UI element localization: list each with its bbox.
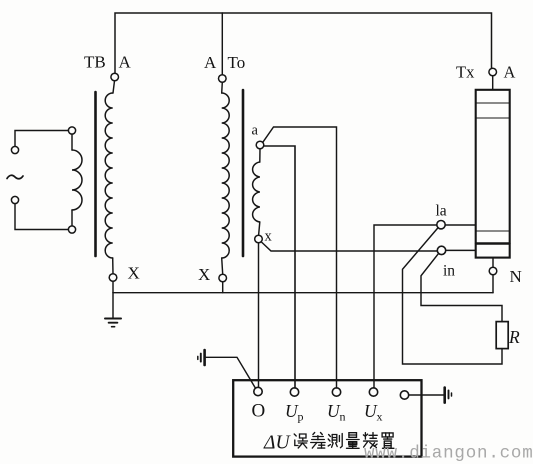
Tx tap line xyxy=(476,117,510,119)
wire earth to O xyxy=(206,357,256,388)
svg-text:in: in xyxy=(443,263,455,280)
AC source terminal bottom-left xyxy=(11,196,18,203)
wire bus (X-X-N common) xyxy=(113,292,493,294)
terminal A of TB xyxy=(111,73,119,81)
wire AC top xyxy=(15,131,68,147)
wire To drop xyxy=(221,13,223,75)
terminal Up xyxy=(290,388,298,396)
terminal X of To xyxy=(219,274,227,282)
winding To secondary a-x xyxy=(253,162,260,222)
wire top bus xyxy=(115,13,492,73)
Tx tap line xyxy=(476,230,510,232)
wire X to bus xyxy=(112,281,114,292)
earth symbol left of box xyxy=(203,350,206,365)
terminal Ux xyxy=(369,388,377,396)
wire xyxy=(259,222,260,235)
inductor AC coupling winding xyxy=(71,134,73,150)
terminal A of To xyxy=(219,75,227,83)
wire xyxy=(259,149,261,162)
svg-text:A: A xyxy=(119,53,132,72)
svg-text:N: N xyxy=(510,267,522,286)
wire xyxy=(113,81,115,93)
terminal a xyxy=(256,141,264,149)
svg-text:www.diangon.com: www.diangon.com xyxy=(364,444,533,464)
winding To primary xyxy=(222,93,230,258)
svg-text:R: R xyxy=(508,327,520,347)
svg-text:x: x xyxy=(265,229,273,245)
AC coil terminal top xyxy=(68,127,75,134)
wire X to bus xyxy=(222,282,224,293)
transformer To core xyxy=(242,90,245,256)
svg-text:la: la xyxy=(436,203,447,220)
AC source terminal top-left xyxy=(11,146,18,153)
wire AC bottom xyxy=(15,204,68,230)
terminal A of Tx xyxy=(489,68,497,76)
Tx tap line xyxy=(476,102,510,104)
svg-text:O: O xyxy=(252,401,266,422)
wire la to Tx xyxy=(445,224,476,226)
label chinese 差 xyxy=(311,433,325,449)
wire xyxy=(112,258,114,274)
switch blade from in to R top xyxy=(421,253,502,321)
terminal in xyxy=(437,246,445,254)
AC source label ~ xyxy=(7,175,23,178)
svg-text:Tx: Tx xyxy=(456,63,475,82)
wire x down to O xyxy=(258,243,260,387)
label chinese 误 xyxy=(294,434,307,448)
svg-text:A: A xyxy=(504,63,516,82)
terminal O xyxy=(254,387,262,395)
terminal Un xyxy=(332,388,340,396)
label chinese 装 xyxy=(363,433,377,449)
svg-text:X: X xyxy=(198,265,210,284)
terminal la xyxy=(437,221,445,229)
svg-text:A: A xyxy=(204,53,217,72)
switch blade from la to R bottom xyxy=(403,228,503,364)
svg-text:ΔU: ΔU xyxy=(263,433,291,454)
label chinese 量 xyxy=(347,433,360,449)
AC coil terminal bottom xyxy=(68,226,75,233)
svg-text:n: n xyxy=(340,410,346,424)
svg-text:TB: TB xyxy=(84,53,106,72)
ground under TB X xyxy=(112,293,114,319)
wire Ux riser to la xyxy=(374,225,437,388)
svg-text:X: X xyxy=(128,264,140,283)
svg-text:a: a xyxy=(252,123,259,139)
svg-text:To: To xyxy=(228,53,246,72)
terminal X of TB xyxy=(109,274,117,282)
wire a to Un vertical xyxy=(263,127,337,388)
wire x to In xyxy=(261,242,437,251)
wire N xyxy=(492,258,494,293)
resistor R xyxy=(496,322,508,349)
wire xyxy=(221,82,224,93)
label chinese 测 xyxy=(328,434,342,448)
wire A to tank xyxy=(492,76,494,90)
svg-text:p: p xyxy=(298,410,304,424)
wire box terminal to earth xyxy=(409,394,444,396)
transformer TB core xyxy=(94,92,97,256)
earth symbol right of box xyxy=(443,388,446,403)
terminal N xyxy=(489,267,497,275)
wire xyxy=(222,258,223,274)
terminal earth of box xyxy=(400,391,408,399)
wire a to Up vertical xyxy=(264,146,295,388)
svg-text:x: x xyxy=(377,410,383,424)
terminal x xyxy=(255,235,263,243)
measuring set box xyxy=(233,380,421,456)
winding TB primary xyxy=(105,93,113,258)
transformer Tx tank xyxy=(476,90,510,258)
Tx tap line thick xyxy=(476,242,510,244)
label chinese 置 xyxy=(382,433,394,448)
wire in to Tx xyxy=(446,249,476,251)
